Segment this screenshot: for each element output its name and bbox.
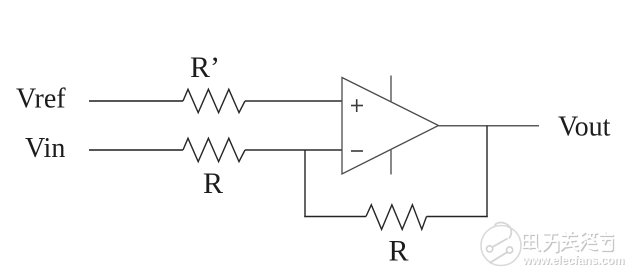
wire Vin left segment — [89, 149, 183, 151]
svg-text:R: R — [203, 167, 223, 200]
op-amp inverting input marking - — [351, 150, 363, 152]
wire Vref left segment — [89, 100, 183, 102]
watermark text — [522, 231, 626, 268]
op-amp top power pin — [390, 76, 392, 103]
op-amp U1 — [342, 78, 439, 175]
svg-text:R: R — [389, 235, 409, 268]
wire output segment — [439, 125, 540, 127]
wire feedback bottom right segment — [427, 216, 488, 218]
svg-text:Vin: Vin — [25, 133, 65, 164]
svg-text:R’: R’ — [190, 51, 220, 84]
wire feedback bottom left segment — [304, 216, 366, 218]
wire feedback tap vertical — [304, 150, 306, 217]
resistor R (feedback) — [366, 205, 427, 230]
svg-text:Vout: Vout — [558, 112, 611, 143]
resistor R' — [183, 89, 245, 112]
wire Vin right segment — [245, 149, 342, 151]
watermark logo — [481, 223, 521, 266]
svg-text:www.elecfans.com: www.elecfans.com — [522, 254, 625, 267]
resistor R (input) — [183, 138, 245, 161]
op-amp bottom power pin — [390, 149, 392, 175]
svg-text:Vref: Vref — [16, 84, 66, 115]
wire feedback right vertical — [486, 126, 488, 218]
wire Vref right segment — [245, 100, 342, 102]
op-amp non-inverting input marking + — [351, 99, 363, 112]
